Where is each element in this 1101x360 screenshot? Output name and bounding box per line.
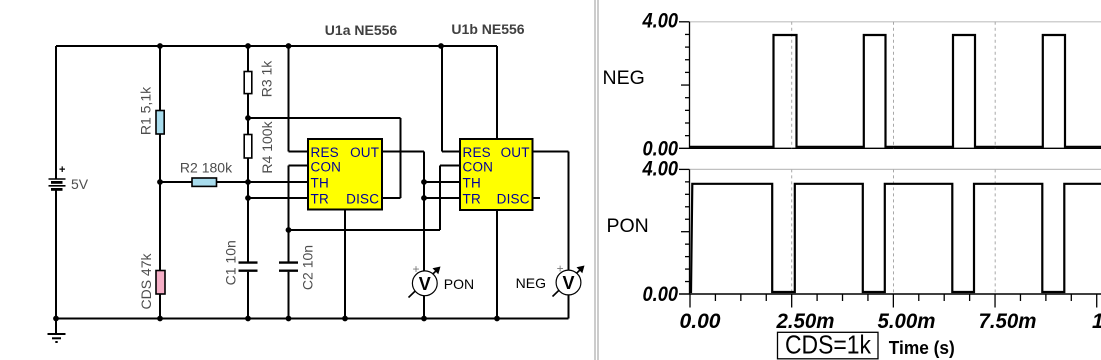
svg-text:OUT: OUT [501,145,530,160]
svg-text:U1b NE556: U1b NE556 [451,21,524,37]
svg-text:R4 100k: R4 100k [259,120,275,173]
svg-text:TH: TH [311,176,329,191]
svg-text:DISC: DISC [497,192,530,207]
svg-text:10.00m: 10.00m [1092,310,1101,333]
svg-text:+: + [557,261,564,275]
svg-text:C2 10n: C2 10n [300,245,316,290]
svg-text:CDS 47k: CDS 47k [138,252,154,309]
svg-text:TR: TR [311,192,329,207]
svg-text:V: V [419,274,431,294]
svg-text:NEG: NEG [516,275,546,291]
svg-text:TH: TH [463,176,481,191]
svg-text:V: V [562,273,574,293]
svg-text:5.00m: 5.00m [878,310,936,333]
svg-text:RES: RES [311,145,339,160]
svg-text:CON: CON [463,159,494,174]
svg-text:0.00: 0.00 [643,283,679,306]
svg-text:PON: PON [444,276,474,292]
svg-text:CON: CON [311,159,342,174]
svg-text:5V: 5V [71,176,89,192]
svg-text:R2 180k: R2 180k [180,160,233,176]
svg-text:DISC: DISC [346,192,379,207]
svg-text:PON: PON [607,215,649,237]
svg-text:4.00: 4.00 [642,157,679,180]
svg-text:NEG: NEG [603,67,645,89]
svg-text:+: + [413,262,420,276]
svg-text:TR: TR [463,192,481,207]
svg-text:C1 10n: C1 10n [223,240,239,285]
svg-text:7.50m: 7.50m [979,310,1037,333]
svg-text:U1a NE556: U1a NE556 [325,22,398,38]
svg-text:+: + [59,164,65,176]
svg-text:OUT: OUT [350,145,379,160]
svg-text:4.00: 4.00 [642,10,679,33]
svg-text:Time (s): Time (s) [889,337,955,358]
svg-text:RES: RES [463,145,491,160]
svg-text:CDS=1k: CDS=1k [785,330,872,360]
svg-text:R3 1k: R3 1k [259,60,275,98]
svg-text:R1 5,1k: R1 5,1k [138,86,154,135]
svg-text:0.00: 0.00 [680,310,721,333]
